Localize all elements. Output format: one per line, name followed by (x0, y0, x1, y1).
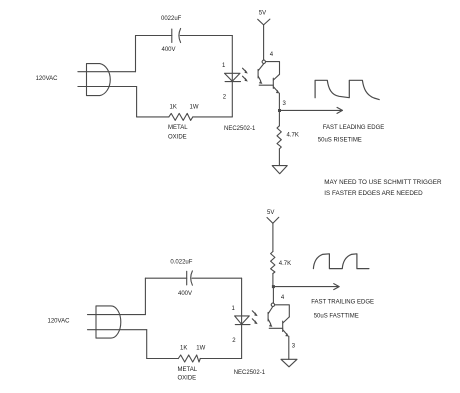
light arrow a (top) (243, 68, 248, 73)
svg-text:1K: 1K (170, 104, 177, 110)
power symbol 5V (top) (258, 19, 270, 25)
svg-text:3: 3 (283, 101, 287, 107)
wire: node down to resistor R2 (278, 110, 280, 125)
wire: 5V down to pin 4 (263, 25, 265, 60)
wire: top wire from capacitor to LED anode vertical (180, 35, 232, 37)
svg-text:2: 2 (223, 94, 227, 100)
wire: resistor to ground (278, 149, 280, 166)
power symbol 5V (bottom) (267, 217, 279, 223)
svg-text:1: 1 (232, 306, 236, 312)
wire: emitter down to output node (278, 93, 280, 110)
svg-text:NEC2502-1: NEC2502-1 (234, 370, 266, 376)
capacitor C2 (187, 271, 193, 285)
wire: cap to LED vertical (bottom) (192, 277, 242, 279)
wire: LED vertical (pin1 to pin2 column) (231, 36, 233, 117)
svg-text:5V: 5V (267, 210, 274, 216)
svg-text:400V: 400V (178, 291, 192, 297)
svg-text:0022uF: 0022uF (161, 16, 182, 22)
svg-text:1: 1 (222, 63, 226, 69)
wire: 5V down to resistor (bottom) (272, 223, 274, 251)
svg-text:1K: 1K (180, 346, 187, 352)
svg-text:120VAC: 120VAC (48, 319, 71, 325)
light arrow b (top) (243, 76, 248, 81)
transistor Q2 (top darlington second) (273, 74, 279, 93)
svg-text:NEC2502-1: NEC2502-1 (224, 126, 256, 132)
light arrow b (bottom) (252, 319, 257, 324)
wire: left vertical up to cap wire (135, 36, 137, 72)
pin 4 circle (top) (262, 60, 265, 63)
svg-text:3: 3 (292, 343, 296, 349)
wire: LED vertical (bottom) (241, 278, 243, 358)
svg-text:OXIDE: OXIDE (178, 376, 197, 382)
wire: left vertical up to cap wire (bottom) (144, 278, 146, 314)
transistor Q4 (bottom darlington second) (283, 317, 290, 337)
svg-text:METAL: METAL (178, 367, 198, 373)
light arrow a (bottom) (252, 311, 257, 316)
svg-text:4.7K: 4.7K (279, 261, 291, 267)
wire: top wire to capacitor (bottom) (145, 277, 186, 279)
wire: bottom wire from resistor to LED cathode (193, 116, 233, 118)
wire: left vertical down to bottom wire (bottom) (146, 330, 148, 359)
svg-text:IS FASTER EDGES ARE NEEDED: IS FASTER EDGES ARE NEEDED (324, 190, 423, 197)
wire: resistor to LED vertical (bottom) (200, 358, 241, 360)
svg-text:50uS RISETIME: 50uS RISETIME (318, 138, 362, 144)
waveform (fast leading edge) (315, 80, 379, 99)
svg-text:1W: 1W (196, 346, 205, 352)
wire: node down to pin 4 (bottom) (272, 287, 274, 304)
svg-text:120VAC: 120VAC (36, 76, 59, 82)
pin 4 circle (bottom) (271, 303, 274, 306)
wire: top prong of plug to left vertical (78, 71, 136, 73)
svg-text:OXIDE: OXIDE (168, 135, 187, 141)
wire: top prong of plug (bottom circuit) (88, 314, 146, 316)
plug P2 (120VAC plug body) (96, 306, 121, 338)
svg-text:1W: 1W (190, 104, 199, 110)
node junction (bottom output) (272, 285, 275, 288)
wire: left vertical down to bottom wire (136, 87, 138, 117)
svg-text:METAL: METAL (168, 125, 188, 131)
resistor R3 1K 1W (bottom) (178, 355, 200, 362)
capacitor C1 (172, 29, 181, 43)
svg-text:4: 4 (270, 52, 274, 58)
wire: output arrow (bottom) (273, 284, 339, 290)
wire: bottom wire to resistor (bottom) (147, 358, 179, 360)
ground (bottom) (281, 359, 297, 367)
svg-text:400V: 400V (162, 47, 176, 53)
svg-text:FAST LEADING EDGE: FAST LEADING EDGE (323, 125, 385, 131)
resistor R4 4.7K (bottom) (271, 252, 275, 274)
ground (top) (272, 166, 287, 174)
wire: bottom wire to resistor (137, 116, 169, 118)
svg-text:0.022uF: 0.022uF (170, 259, 192, 265)
transistor Q1 (top darlington first) (258, 64, 264, 84)
svg-text:4.7K: 4.7K (287, 133, 299, 139)
wire: bottom prong of plug (78, 86, 137, 88)
wire: top wire from vertical to capacitor left plate (136, 35, 172, 37)
transistor Q3 (bottom darlington first) (268, 307, 273, 327)
svg-text:50uS FASTTIME: 50uS FASTTIME (314, 313, 359, 319)
wire: Q3 emitter to Q4 base (269, 327, 283, 329)
resistor R2 4.7K (top) (277, 126, 281, 149)
svg-text:MAY NEED TO USE SCHMITT TRIGGE: MAY NEED TO USE SCHMITT TRIGGER (324, 179, 442, 186)
wire: emitter down to ground (bottom) (288, 336, 290, 359)
svg-text:2: 2 (232, 338, 236, 344)
wire: pin 4 to collector vertical (266, 62, 280, 75)
optocoupler U1 LED (225, 73, 241, 81)
wire: resistor down to node (bottom) (272, 274, 274, 287)
plug P1 (120VAC plug body) (87, 64, 111, 96)
svg-text:FAST TRAILING EDGE: FAST TRAILING EDGE (311, 300, 374, 306)
wire: pin 4 to collector vertical (bottom) (275, 305, 290, 317)
svg-text:4: 4 (281, 295, 285, 301)
wire: Q1 emitter to Q2 base (259, 84, 273, 86)
node junction (top output) (278, 109, 281, 112)
svg-text:5V: 5V (259, 11, 266, 17)
wire: output arrow (top) (280, 107, 343, 113)
optocoupler U2 LED (235, 316, 250, 325)
wire: bottom prong of plug (bottom circuit) (88, 329, 147, 331)
waveform (fast trailing edge) (313, 254, 369, 269)
resistor R1 1K 1W (169, 113, 193, 120)
